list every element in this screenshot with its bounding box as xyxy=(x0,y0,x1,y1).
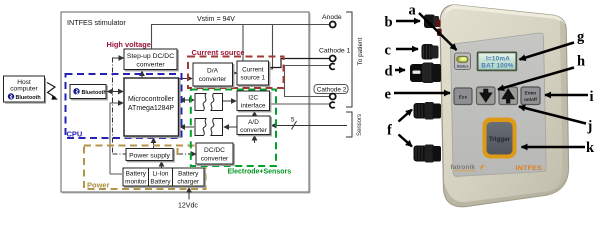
svg-text:e: e xyxy=(385,87,392,103)
wire battery monitor to microcontroller xyxy=(110,103,122,174)
svg-text:I=10mA: I=10mA xyxy=(486,56,510,63)
arrow b xyxy=(396,20,420,23)
connector jack 3 with plug xyxy=(410,63,441,84)
optocoupler isolation symbol 2 xyxy=(195,119,223,136)
svg-text:Anode: Anode xyxy=(322,14,342,21)
svg-text:k: k xyxy=(586,140,595,156)
wire I2C to Cathode 2 hook xyxy=(270,103,330,105)
Status button with LED xyxy=(455,53,471,70)
logo fatronik xyxy=(451,163,485,172)
connector Anode circle xyxy=(330,22,336,28)
svg-text:Cathode 1: Cathode 1 xyxy=(319,48,351,55)
wire micro to D/A xyxy=(179,78,193,80)
outer box INTFES stimulator xyxy=(61,12,310,193)
svg-text:d: d xyxy=(385,64,393,80)
svg-text:BAT 100%: BAT 100% xyxy=(481,63,513,70)
svg-text:Bluetooth: Bluetooth xyxy=(82,90,107,96)
button Enter on/off xyxy=(521,87,540,105)
svg-text:fatronik: fatronik xyxy=(451,164,476,171)
wire Vstim rail to Anode xyxy=(152,25,330,50)
svg-text:converter: converter xyxy=(199,76,227,83)
svg-text:Microcontroller: Microcontroller xyxy=(128,96,175,103)
arrow j to up button xyxy=(519,107,586,124)
arrow c xyxy=(396,48,418,51)
button Esc xyxy=(454,88,472,105)
bracket To patient xyxy=(346,12,352,107)
connector Cathode 1 circle xyxy=(330,56,336,62)
arrow DC/DC to A/D converter xyxy=(254,136,256,141)
wire bluetooth-micro bidirectional xyxy=(109,91,123,93)
box A/D converter xyxy=(237,116,270,135)
svg-text:Esc: Esc xyxy=(459,95,468,101)
button arrow down xyxy=(477,87,496,105)
LCD screen xyxy=(477,52,518,72)
svg-text:i: i xyxy=(590,89,594,105)
wire brown segment xyxy=(177,148,179,155)
arrow power supply to micro xyxy=(153,138,155,149)
arrow I2C from A/D xyxy=(254,112,256,117)
svg-text:To patient: To patient xyxy=(357,37,364,65)
svg-text:h: h xyxy=(577,54,585,70)
label Cathode 2 in rounded frame xyxy=(314,85,348,94)
svg-text:a: a xyxy=(409,3,417,19)
arrow f to jack 5 xyxy=(399,135,413,147)
wire Vstim drop to Current source 1 top xyxy=(242,25,244,61)
button Trigger xyxy=(483,118,517,159)
arrow a to Status xyxy=(419,13,457,50)
arrow k to Trigger xyxy=(522,146,586,149)
svg-text:12Vdc: 12Vdc xyxy=(178,203,198,210)
box Host computer xyxy=(4,76,46,103)
box Step-up DC/DC converter xyxy=(124,49,177,70)
svg-text:on/off: on/off xyxy=(524,97,537,102)
box I2C interface xyxy=(237,91,270,111)
box D/A converter xyxy=(193,63,233,86)
connector Cathode 2 circle xyxy=(330,94,336,100)
zigzag wireless link xyxy=(47,83,56,98)
optocoupler isolation symbol 1 xyxy=(195,94,223,111)
connector Cathode 1 hook xyxy=(330,64,335,70)
arrow i to Enter xyxy=(545,94,588,97)
wire Vstim drop to CS1 right side xyxy=(266,25,273,70)
svg-text:j: j xyxy=(587,119,593,135)
svg-text:Enter: Enter xyxy=(525,91,537,96)
box Battery monitor xyxy=(123,168,149,186)
svg-text:Current source: Current source xyxy=(192,48,245,57)
Current source red dashed box xyxy=(188,57,284,89)
svg-text:f: f xyxy=(387,123,392,139)
box Bluetooth module xyxy=(70,85,107,99)
svg-text:A/D: A/D xyxy=(248,119,259,126)
svg-text:Cathode 2: Cathode 2 xyxy=(317,87,347,94)
wire net Cathode1 hook / Cathode2 circle xyxy=(285,66,330,97)
svg-text:Power supply: Power supply xyxy=(129,153,170,160)
arrow f to jack 4 xyxy=(399,110,413,122)
svg-text:INTFES: INTFES xyxy=(516,165,543,172)
svg-text:converter: converter xyxy=(240,127,268,134)
svg-text:Status: Status xyxy=(457,64,469,69)
svg-text:converter: converter xyxy=(201,156,229,163)
svg-text:Li-Ion: Li-Ion xyxy=(153,171,169,178)
wire sensors bus to A/D with 5 slash xyxy=(272,125,348,127)
svg-text:Power: Power xyxy=(87,181,110,190)
svg-text:CPU: CPU xyxy=(67,130,83,139)
connector jack 5 xyxy=(414,145,442,163)
connector jack 2 xyxy=(422,44,439,60)
arrow d xyxy=(395,69,405,72)
box Current source 1 xyxy=(237,61,269,85)
connector jack 4 xyxy=(414,102,442,120)
wire opto2 to micro xyxy=(180,126,194,128)
svg-text:INTFES stimulator: INTFES stimulator xyxy=(67,18,126,27)
svg-text:High voltage: High voltage xyxy=(107,40,151,49)
box DC/DC converter xyxy=(196,143,233,164)
CPU blue dashed box xyxy=(66,74,182,138)
svg-text:c: c xyxy=(385,43,392,59)
svg-text:b: b xyxy=(385,15,393,31)
svg-text:charger: charger xyxy=(177,179,200,186)
svg-text:5: 5 xyxy=(291,118,295,124)
connector jack 1 xyxy=(424,15,442,37)
wire A/D to opto2 xyxy=(224,126,237,128)
svg-text:Vstim = 94V: Vstim = 94V xyxy=(197,16,235,23)
arrow battery to power supply xyxy=(161,162,163,169)
high voltage dash-dot power distribution line xyxy=(113,58,255,155)
arrow h to down button xyxy=(498,68,574,90)
device face plate xyxy=(451,33,547,176)
box Power supply xyxy=(126,149,173,161)
Electrode+Sensors green dashed box xyxy=(191,90,276,167)
svg-text:interface: interface xyxy=(241,103,266,110)
svg-text:Current: Current xyxy=(242,67,264,74)
connector Cathode 2 hook xyxy=(330,102,335,108)
arrow green into DC/DC converter xyxy=(188,153,196,155)
wire CS1 output to Cathode 1 circle xyxy=(267,59,329,68)
svg-text:monitor: monitor xyxy=(125,179,147,186)
arrow 12Vdc into battery charger xyxy=(188,188,190,200)
svg-text:g: g xyxy=(577,29,585,45)
Power brown dashed box xyxy=(84,146,206,190)
svg-text:ATmega1284P: ATmega1284P xyxy=(128,105,175,112)
svg-text:converter: converter xyxy=(136,62,165,69)
wire opto1 to I2C xyxy=(223,100,236,102)
arrow e xyxy=(394,92,450,95)
svg-text:Step-up DC/DC: Step-up DC/DC xyxy=(127,53,174,60)
box Battery charger xyxy=(173,168,205,186)
svg-text:Battery: Battery xyxy=(126,171,147,178)
svg-text:Battery: Battery xyxy=(150,179,171,186)
svg-text:Battery: Battery xyxy=(178,171,199,178)
arrow micro to step-up xyxy=(141,71,143,78)
svg-text:D/A: D/A xyxy=(207,68,219,75)
button arrow up xyxy=(499,87,518,105)
svg-text:computer: computer xyxy=(10,86,38,93)
box Li-Ion Battery xyxy=(149,168,173,186)
svg-text:Sensors: Sensors xyxy=(357,114,363,136)
arrow g to LCD xyxy=(520,43,575,60)
wire micro-opto1 bidirectional xyxy=(181,99,194,101)
svg-text:Trigger: Trigger xyxy=(489,136,511,143)
bracket Sensors xyxy=(346,112,352,137)
svg-text:source 1: source 1 xyxy=(241,75,266,82)
svg-text:DC/DC: DC/DC xyxy=(204,147,225,154)
box Microcontroller ATmega1284P xyxy=(124,78,179,136)
svg-text:Electrode+Sensors: Electrode+Sensors xyxy=(228,169,292,176)
arrow dash-dot into step-up converter xyxy=(117,57,124,59)
device body INTFES stimulator photo xyxy=(440,5,569,207)
wire D/A to CS1 xyxy=(233,72,237,74)
svg-text:I2C: I2C xyxy=(248,95,258,102)
svg-text:Bluetooth: Bluetooth xyxy=(16,95,41,101)
